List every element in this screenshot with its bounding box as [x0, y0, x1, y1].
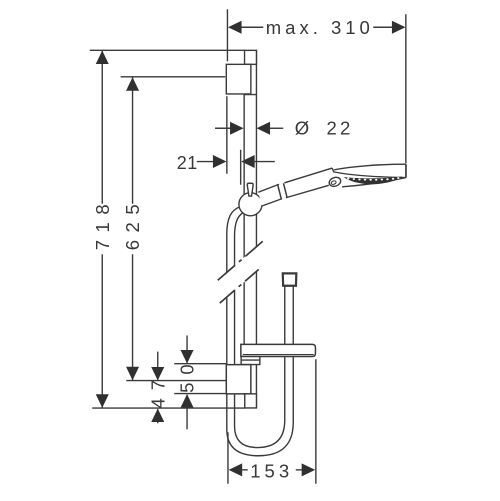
hand shower pivot ball	[239, 193, 262, 216]
shower hose inner line	[235, 213, 285, 448]
handle joint line 2	[283, 183, 287, 197]
dimension diameter 22 left arrow	[230, 122, 244, 135]
dimension diameter 22 line right tail	[268, 127, 283, 129]
dimension 50 extension line top	[174, 363, 226, 365]
svg-text:max. 310: max. 310	[266, 17, 374, 38]
svg-text:625: 625	[122, 197, 143, 250]
dimension 718 line upper segment	[101, 51, 103, 204]
soap dish rail collar	[241, 357, 260, 365]
rail bottom wall bracket	[226, 365, 251, 394]
dimension 21 right arrow	[241, 155, 255, 168]
handle bottom edge segment 2	[286, 185, 329, 197]
dimension 153 line right tail	[296, 469, 303, 471]
svg-text:22: 22	[327, 117, 354, 138]
shower head junction notch	[332, 168, 334, 172]
dimension 718 top arrow	[96, 51, 109, 65]
dimension 50 extension line bottom	[174, 393, 226, 395]
shower head spray face dark band	[344, 177, 403, 185]
svg-text:718: 718	[92, 197, 113, 250]
shower hose outer line (from ball, down, U-turn, up to fitting)	[227, 207, 293, 456]
shower head right edge	[405, 164, 407, 177]
dimension 50 bottom arrow	[181, 394, 194, 408]
dimension max.310 line left segment	[240, 26, 263, 28]
handle control button inner detail	[331, 180, 337, 185]
break mark white band	[210, 235, 270, 312]
dimension max.310 right extension line	[405, 14, 407, 163]
dimension 47 extension line bottom (shared with 718 bottom)	[92, 407, 245, 409]
handle top edge segment 2	[284, 168, 332, 183]
soap dish collar lip line	[241, 359, 260, 361]
break mark upper diagonal (dash-dot)	[218, 241, 263, 280]
dimension max.310 line right segment	[373, 26, 394, 28]
hand shower handle lower segment fill	[258, 183, 284, 206]
dimension 153 right extension line	[315, 359, 317, 484]
hose upper fitting cone	[283, 273, 297, 285]
rail top wall bracket	[226, 64, 251, 94]
dimension diameter 22 line left tail	[215, 127, 232, 129]
dimension 50 line lower tail	[186, 395, 188, 430]
svg-text:Ø: Ø	[295, 117, 309, 138]
rail sleeve step below top bracket	[244, 94, 256, 96]
dimension 718 top extension line	[90, 49, 245, 51]
pivot ball index pin	[247, 183, 253, 196]
dimension 21 line left tail	[197, 161, 215, 163]
dimension 21 left extension line (wall line)	[226, 96, 228, 174]
dimension 50 top arrow	[181, 350, 194, 364]
dimension 625 line lower segment	[132, 254, 134, 380]
dimension 625 line upper segment	[132, 77, 134, 204]
dimension 153 left arrow	[229, 463, 243, 476]
shower head bottom contour	[342, 178, 406, 187]
handle control button ellipse	[328, 176, 342, 188]
dimension max.310 left extension line	[226, 9, 228, 61]
dimension 625 top arrow	[126, 77, 139, 91]
handle top edge segment 1	[258, 184, 279, 192]
dimension diameter 22 right arrow	[257, 122, 271, 135]
dimension 47 bottom arrow	[151, 409, 164, 423]
soap dish bottom accent line	[243, 354, 314, 356]
dimension 625 bottom arrow	[126, 367, 139, 381]
dimension 625 top extension line	[121, 76, 226, 78]
dimension 50 line upper tail	[186, 335, 188, 362]
spray nozzles white dots	[347, 177, 399, 181]
dimension 153 line left tail	[241, 469, 248, 471]
rail top cap	[245, 50, 257, 64]
dimension 21 right extension line	[240, 150, 242, 185]
shower head top edge	[334, 164, 406, 170]
dimension 47 line lower tail	[157, 409, 159, 423]
dimension 153 left extension line	[227, 432, 229, 484]
shower head near rim line	[333, 172, 406, 178]
svg-text:153: 153	[250, 460, 293, 481]
handle joint line 1	[278, 184, 282, 198]
dimension max.310 right arrow	[392, 21, 406, 34]
soap dish tray	[241, 344, 316, 356]
hand shower upper handle and head fill	[287, 164, 406, 197]
shower rail right edge	[255, 50, 257, 408]
dimension 47 extension line top (shared with 625 bottom)	[126, 380, 226, 382]
dimension 21 line right tail	[253, 161, 275, 163]
break mark lower diagonal (dash-dot)	[220, 269, 259, 303]
dimension 21 left arrow	[213, 155, 227, 168]
dimension max.310 left arrow	[228, 21, 242, 34]
dimension 718 bottom arrow	[96, 394, 109, 408]
svg-text:50: 50	[177, 356, 198, 393]
dimension 153 right arrow	[302, 463, 316, 476]
svg-text:21: 21	[177, 153, 198, 173]
svg-text:47: 47	[147, 372, 168, 409]
shower rail left edge	[243, 94, 245, 394]
dimension 47 line upper tail	[157, 352, 159, 380]
dimension 718 line lower segment	[101, 254, 103, 407]
dimension 47 top arrow	[151, 367, 164, 381]
rail bottom end cap	[245, 394, 257, 408]
handle bottom edge segment 1	[262, 199, 283, 207]
